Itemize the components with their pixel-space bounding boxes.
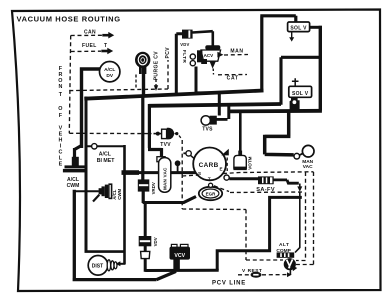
dashed MAN line [224,54,248,57]
dashed bottom of top-left enclosure [69,89,168,91]
valve VDV lower [139,236,158,259]
wire jog to A/CL CWM upper [75,146,82,159]
svg-text:VAC: VAC [303,164,313,170]
wire vertical x124 to DIST [123,145,126,264]
wire tab on S lead [122,170,140,175]
svg-text:CWM: CWM [117,188,122,199]
distributor DIST [88,255,120,275]
gauge MAN VAC pill [157,157,171,193]
svg-text:EGR: EGR [206,192,217,197]
restrictor V REST [242,268,292,278]
port circle BI MET [92,144,97,149]
svg-text:FUEL: FUEL [82,43,97,49]
port MAN VAC circle [294,145,314,170]
svg-text:SOL V: SOL V [290,25,307,31]
svg-text:VOTM: VOTM [247,156,252,169]
carburetor CARB [186,148,229,182]
svg-text:FLTR: FLTR [181,50,187,64]
wire SOL V1 right lead [309,26,322,29]
dashed CAT line [218,74,247,76]
wire stub to CARB top-left port [183,152,186,154]
svg-text:A/CL: A/CL [99,151,112,157]
svg-text:CAN: CAN [84,30,96,36]
dashed box top edge [182,172,313,176]
wire ACV port to TVS [195,67,220,116]
diaphragm A/CL CWM upper [63,157,88,189]
wire purge line down to VRDV [141,95,144,180]
dashed vertical below PCV label [167,60,169,89]
switch TVS [201,116,217,133]
wire x281 riser to y57 [281,57,320,105]
wire main bottom run [73,190,176,280]
svg-text:MAN VAC: MAN VAC [162,167,167,190]
svg-text:VRDV: VRDV [151,182,156,194]
dashed box inner bottom edge [182,208,246,211]
port circle below CARB [209,183,213,187]
svg-text:SA-FV: SA-FV [256,187,275,193]
A/CL DV circle [100,61,120,81]
svg-text:E: E [219,167,222,172]
svg-text:E: E [59,162,63,168]
solenoid SOL V1 [288,22,310,42]
wire loop to MAN VAC circle [265,111,294,155]
wire TVS right lead [217,118,228,121]
wire A/CL DV to H1 [82,67,101,148]
svg-text:T: T [208,176,211,181]
dashed to ALT COMP valve left [246,259,283,261]
svg-text:ACV: ACV [204,53,214,58]
wire VOTM feed [239,111,242,153]
svg-text:A/CL: A/CL [104,67,115,73]
wire SOL V1 riser and top lead [260,16,296,92]
arrow on purge dashed line [154,85,158,91]
diaphragm A/CL CWM lower [93,183,122,201]
filter FLTR [182,30,193,39]
svg-text:VDV: VDV [153,237,158,246]
valve TVV [154,128,179,148]
wire vertical x320 [319,26,322,111]
node dot near MAN VAC pill [175,160,181,166]
wire H2 corner down to MAN VAC pill [148,104,162,158]
svg-text:MAN: MAN [230,49,243,55]
svg-text:TVV: TVV [160,142,171,148]
wire y270 run to VCV and VDV [145,269,219,272]
svg-text:T: T [104,43,107,49]
wire port to CARB diagonal [191,155,195,158]
svg-text:CWM: CWM [67,183,80,189]
dashed vertical x305 [296,172,306,261]
wire DIST arrow lead [120,263,126,265]
svg-text:TVS: TVS [202,127,213,133]
svg-text:SOL V: SOL V [292,91,309,97]
valve EGR [199,187,222,200]
wire BI MET top with port [86,145,125,147]
dashed link TVV to dashed box [175,134,183,140]
wire purge valve drop [142,66,145,97]
wire bottom y251 [85,250,125,253]
dashed vertical left of CAN/FUEL box [69,36,70,134]
svg-text:DV: DV [106,73,113,79]
svg-text:S: S [198,171,201,176]
arrow SA-FV down [297,186,302,191]
purge valve PURGE CV [135,52,150,74]
svg-text:DIST: DIST [92,264,103,270]
wire band2 horizontal y111 [229,109,322,113]
svg-text:PCV LINE: PCV LINE [212,281,246,287]
motor VOTM [233,151,252,171]
dashed FUEL line [71,50,101,52]
svg-text:N: N [58,84,62,90]
wire SA-FV arrow stem [299,184,301,188]
dashed drop from ACV cone to CAT [212,69,214,75]
wire CARB S lead [122,171,197,174]
valve VRDV [138,179,156,194]
valve ACV [190,45,223,68]
svg-text:BI MET: BI MET [97,158,115,164]
dashed CAN line [71,34,102,36]
dashed vertical below PURGE CV label [155,79,157,86]
dashed vertical left of purge valve [135,75,137,90]
wire TVS riser [227,103,230,119]
svg-text:CAT: CAT [227,76,239,82]
wire link port to MAN VAC [299,153,303,155]
svg-text:ALT: ALT [279,242,289,248]
wire main horizontal H1 [84,91,263,99]
wire VRDV to junction [142,192,145,204]
svg-text:VCV: VCV [174,253,185,259]
svg-text:PURGE CV: PURGE CV [153,51,159,81]
wire vertical x86 H1 to bottom [85,97,88,252]
svg-text:VDV: VDV [180,42,189,47]
wire FLTR to ACV [193,31,213,45]
wire main horizontal H2 [149,104,281,106]
wire thin drop to ALT COMP [295,192,300,253]
wire y197 return run [217,196,302,270]
svg-text:CARB: CARB [199,162,219,169]
svg-text:MAN: MAN [302,159,313,165]
dashed stub above box edge near CARB flag [226,158,228,172]
dashed V REST line [238,274,287,276]
valve VCV [170,244,191,259]
wire CARB E to SA-FV [229,177,258,180]
wire A/CL CWM lower lead [74,190,99,192]
svg-text:A/CL: A/CL [67,177,79,183]
restrictor SA-FV [256,176,275,193]
svg-text:O: O [58,106,62,112]
wire y202 to EGR [143,197,196,203]
wire SA-FV to arrow [274,180,299,183]
wire x145 up to VDV cup [144,259,147,272]
wire VDV box to cup gap [144,246,147,252]
wire FLTR riser [176,34,182,96]
svg-text:PCV: PCV [165,47,171,59]
dashed vertical x313 [290,172,314,265]
svg-text:VACUUM HOSE ROUTING: VACUUM HOSE ROUTING [17,14,121,23]
arrow FUEL [101,50,107,53]
dashed line to TVV [69,132,151,134]
arrow CAN [102,34,108,37]
label FRONT OF VEHICLE [58,66,62,168]
wire x145 above VDV [144,202,147,237]
dashed box left edge [181,140,183,209]
compressor ALT COMP [276,242,297,275]
dashed vertical x246 [245,210,247,261]
dashed SA-FV lower line [214,186,302,193]
solenoid SOL V2 [289,78,312,110]
wire VCV foot [173,259,180,270]
